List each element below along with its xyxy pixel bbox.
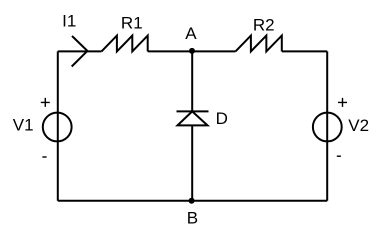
svg-text:R1: R1 <box>121 14 143 33</box>
wire R2 to top-right corner <box>282 50 327 52</box>
resistor R1 <box>102 36 148 52</box>
diode D cathode bar <box>177 110 209 112</box>
svg-text:D: D <box>216 109 228 128</box>
voltage source V2 circle <box>313 113 342 142</box>
wire diode to node B <box>191 125 193 200</box>
node A junction dot <box>189 48 195 54</box>
svg-text:A: A <box>185 24 197 43</box>
resistor R2 <box>236 36 282 52</box>
wire node A to diode <box>191 51 193 111</box>
wire left branch <box>57 51 59 200</box>
diode D triangle <box>178 111 208 125</box>
wire R1 to R2 through node A <box>148 50 236 52</box>
voltage source V1 circle <box>43 113 72 142</box>
current arrow I1 <box>72 36 88 67</box>
svg-text:R2: R2 <box>253 16 275 35</box>
svg-text:I1: I1 <box>62 12 76 31</box>
V1 minus sign <box>42 156 46 158</box>
V1 plus sign <box>41 98 50 107</box>
svg-text:B: B <box>187 209 198 228</box>
wire bottom <box>58 200 327 202</box>
V2 plus sign <box>338 98 347 107</box>
wire top-left segment <box>58 50 102 52</box>
V2 minus sign <box>337 155 341 157</box>
svg-text:V2: V2 <box>348 116 369 135</box>
wire right branch <box>326 51 328 200</box>
node B junction dot <box>189 198 195 204</box>
svg-text:V1: V1 <box>13 115 34 134</box>
